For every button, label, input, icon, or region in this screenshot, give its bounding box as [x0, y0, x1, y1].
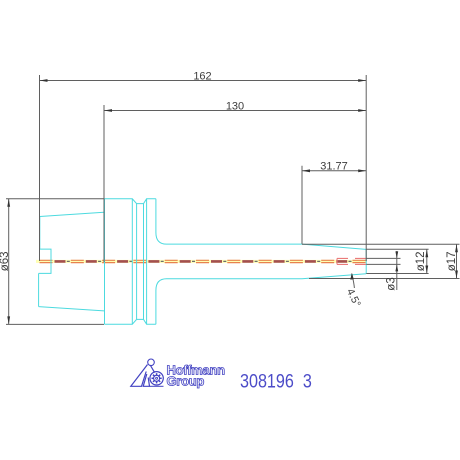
ext line dia63 bottom: [6, 323, 104, 325]
logo arm: [150, 365, 154, 373]
logo wordmark: [167, 363, 226, 389]
logo gear cog: [154, 375, 160, 381]
logo baseline: [150, 385, 164, 387]
ext line x=302 (31.77): [301, 166, 303, 244]
svg-text:ø17: ø17: [446, 251, 458, 271]
coolant notch: [39, 249, 51, 273]
arrow 130 right: [358, 109, 366, 112]
arrow dia3 top (outside): [395, 251, 398, 258]
ext line dia12 bottom: [366, 273, 428, 275]
centerline base (pale yellow): [36, 260, 366, 263]
arrow 31.77 right: [358, 169, 366, 172]
arrow dia12 bottom: [425, 266, 428, 274]
centerline short gray dashes: [40, 260, 367, 262]
svg-text:ø12: ø12: [415, 251, 427, 271]
logo body triangle: [131, 365, 148, 387]
dim line 130: [104, 110, 366, 112]
groove edge vertical x=146.6: [146, 199, 148, 324]
leader 4.5deg: [352, 274, 355, 288]
centerline maroon dashes: [40, 260, 367, 263]
coolant bore hidden lines (red dashed): [337, 258, 366, 264]
dim line dia3: [396, 251, 398, 290]
part outline group (cyan): [39, 199, 367, 324]
flange top profile with V-groove: [105, 199, 156, 204]
svg-text:31.77: 31.77: [320, 161, 348, 173]
dimension texts: [0, 70, 458, 309]
tip face: [365, 249, 367, 273]
svg-text:Group: Group: [167, 374, 205, 389]
logo head: [148, 359, 155, 366]
ext line left x=39.5 (162): [39, 75, 41, 261]
arrow leader 4.5deg: [350, 273, 353, 280]
logo inner leg: [143, 374, 149, 386]
arrow dia12 top: [425, 249, 428, 257]
svg-text:ø3: ø3: [385, 277, 397, 290]
dim line dia63: [8, 199, 10, 325]
Hoffmann Group logo: [131, 359, 164, 386]
ext line dia12 top: [366, 248, 428, 250]
centerline orange dashes (double line): [40, 260, 367, 262]
ext line right x=366.2 (shared): [365, 75, 367, 261]
shaft bottom + fillet to flange right face lower: [156, 274, 366, 325]
groove floor vertical x=143.5: [143, 204, 145, 320]
ext line dia3 bottom: [366, 263, 400, 265]
dim line 162: [40, 80, 367, 82]
groove floor vertical x=136.6: [136, 204, 138, 320]
svg-text:130: 130: [226, 100, 244, 112]
arrow dia3 bottom (outside): [395, 264, 398, 271]
ext line x=104 (130): [103, 105, 105, 262]
dimension lines and extension lines (gray): [6, 75, 460, 324]
arrow dia63 top: [7, 199, 10, 207]
ext line dia17 top: [302, 243, 460, 245]
flange face line: [104, 199, 106, 324]
svg-text:308196 3: 308196 3: [240, 370, 312, 392]
groove edge vertical x=132.3: [131, 199, 133, 324]
logo gear outer: [150, 372, 163, 385]
arrow 130 left: [104, 109, 112, 112]
ext line dia63 top: [6, 198, 104, 200]
arrow dia17 top: [455, 244, 458, 252]
ext line dia3 top: [366, 257, 400, 259]
arrow 31.77 left: [302, 169, 310, 172]
dim line dia12: [426, 249, 428, 273]
dim line dia17: [456, 244, 458, 278]
arrow dia17 bottom: [455, 271, 458, 279]
flange right face upper + fillet to shaft top: [156, 199, 366, 250]
dim line 31.77: [302, 170, 366, 172]
arrow 162 right: [358, 79, 366, 82]
shank taper bottom edge: [39, 307, 104, 311]
svg-text:162: 162: [193, 70, 211, 82]
shank taper top edge: [40, 212, 104, 216]
shank left face lower: [38, 273, 40, 306]
shank left face upper: [39, 217, 41, 250]
ext line dia17 bottom: [309, 278, 460, 280]
svg-text:ø63: ø63: [0, 251, 11, 271]
arrow 162 left: [40, 79, 48, 82]
arrow dia63 bottom: [7, 316, 10, 324]
flange bottom profile with V-groove: [105, 319, 156, 324]
arrows (dark): [7, 79, 458, 324]
